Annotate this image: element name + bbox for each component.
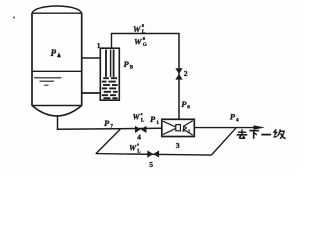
svg-text:s: s: [141, 111, 143, 116]
svg-text:W: W: [133, 24, 142, 34]
svg-text:P: P: [181, 99, 187, 109]
svg-text:1: 1: [97, 41, 101, 50]
svg-text:L: L: [137, 148, 141, 154]
svg-text:P: P: [51, 48, 57, 58]
svg-text:W: W: [133, 112, 141, 121]
svg-text:W: W: [129, 143, 137, 152]
svg-text:1: 1: [156, 120, 159, 126]
svg-text:G: G: [143, 42, 147, 48]
svg-text:5: 5: [149, 160, 153, 169]
svg-text:2: 2: [184, 69, 188, 78]
svg-text:4: 4: [137, 133, 141, 142]
svg-text:7: 7: [110, 124, 113, 130]
svg-text:4: 4: [236, 117, 239, 123]
svg-text:P: P: [230, 112, 236, 122]
svg-text:P: P: [124, 59, 130, 69]
svg-text:B: B: [130, 65, 134, 71]
svg-text:P: P: [150, 114, 156, 124]
svg-text:6: 6: [187, 105, 190, 111]
svg-text:0: 0: [142, 23, 145, 28]
svg-text:L: L: [142, 29, 146, 35]
svg-text:P: P: [182, 124, 187, 133]
svg-text:L: L: [141, 117, 145, 123]
svg-text:0: 0: [143, 36, 146, 41]
svg-text:W: W: [134, 36, 143, 46]
svg-text:s: s: [137, 142, 139, 147]
svg-text:P: P: [104, 118, 110, 128]
svg-text:3: 3: [176, 141, 180, 150]
